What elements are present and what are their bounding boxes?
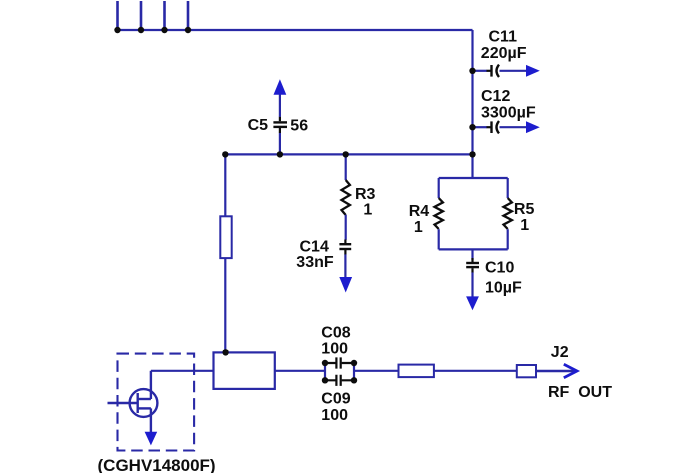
ground arrow C14 — [339, 277, 352, 293]
svg-text:33nF: 33nF — [296, 254, 334, 271]
svg-text:C08: C08 — [321, 324, 350, 341]
wire left branch upper — [224, 154, 226, 216]
capacitor C10 — [466, 258, 522, 297]
node junction dot C12 — [469, 124, 475, 130]
capacitor C11 — [473, 29, 527, 77]
node junction dot C11 — [469, 68, 475, 74]
svg-text:3300µF: 3300µF — [481, 105, 536, 122]
ground arrow C10 — [466, 296, 479, 310]
capacitor C14 — [296, 239, 351, 278]
wire bottom rail to C10 — [471, 249, 473, 260]
svg-text:(CGHV14800F): (CGHV14800F) — [98, 456, 216, 473]
power arrow C11 — [526, 65, 540, 77]
node dot C08 right — [351, 360, 357, 366]
node junction dot stub2 — [138, 27, 144, 33]
wire left branch lower — [224, 258, 226, 352]
svg-text:100: 100 — [321, 341, 348, 358]
wire C08/C09 to TL1 — [354, 370, 399, 372]
svg-text:10µF: 10µF — [485, 279, 522, 296]
svg-text:220µF: 220µF — [481, 45, 527, 62]
node junction dot stub3 — [161, 27, 167, 33]
svg-text:1: 1 — [363, 201, 372, 218]
wire supply stub 1 — [116, 1, 119, 30]
node junction dot bus/main — [469, 151, 475, 157]
wire supply stub 4 — [187, 1, 190, 30]
node junction dot C5 — [277, 151, 283, 157]
node junction dot left branch — [222, 151, 228, 157]
node junction dot stub1 — [114, 27, 120, 33]
svg-text:R5: R5 — [514, 201, 535, 218]
connector J2 arrow — [564, 364, 577, 378]
svg-text:C11: C11 — [489, 29, 518, 46]
resistor R4 — [409, 178, 443, 249]
wire supply stub 2 — [140, 1, 143, 30]
wire TL2 to J2 — [536, 370, 574, 372]
wire R4/R5 top rail — [439, 177, 508, 179]
resistor R3 — [342, 154, 376, 239]
svg-text:C09: C09 — [321, 391, 350, 408]
wire TL1 to TL2 — [434, 370, 517, 372]
resistor box (left branch) — [220, 216, 231, 258]
svg-text:C10: C10 — [485, 260, 514, 277]
node junction dot on block — [222, 349, 228, 355]
capacitor C12 — [473, 88, 536, 133]
block output match rectangle — [214, 352, 275, 389]
node dot C08 left — [322, 360, 328, 366]
wire block to C08/C09 — [275, 370, 325, 372]
svg-text:C12: C12 — [481, 88, 510, 105]
svg-text:RF OUT: RF OUT — [548, 384, 612, 401]
power arrow C12 — [526, 121, 540, 133]
svg-text:C5: C5 — [248, 117, 269, 134]
svg-text:1: 1 — [414, 219, 423, 236]
wire top bus — [118, 29, 473, 31]
capacitor C5 — [248, 95, 309, 155]
wire mid bus — [225, 153, 472, 155]
node junction dot stub4 — [185, 27, 191, 33]
svg-text:1: 1 — [520, 217, 529, 234]
svg-text:R3: R3 — [355, 186, 376, 203]
node junction dot R3 — [343, 151, 349, 157]
wire main vertical right — [471, 30, 473, 178]
wire drain to block — [151, 370, 214, 372]
wire supply stub 3 — [163, 1, 166, 30]
node dot C09 left — [322, 377, 328, 383]
transistor Q1 (MESFET) — [108, 371, 158, 433]
transistor Q1 dashed package box — [118, 354, 195, 451]
capacitor pair C08/C09 — [321, 324, 354, 424]
transmission line TL1 box — [399, 365, 434, 378]
svg-text:100: 100 — [321, 407, 348, 424]
wire R4/R5 bottom rail — [439, 248, 508, 250]
transmission line TL2 box — [517, 365, 536, 377]
node junction dot block top — [222, 349, 228, 355]
svg-text:56: 56 — [290, 118, 308, 135]
power arrow C5 — [274, 79, 287, 95]
svg-text:J2: J2 — [551, 344, 569, 361]
svg-text:R4: R4 — [409, 203, 430, 220]
node dot C09 right — [351, 377, 357, 383]
resistor R5 — [504, 178, 535, 249]
ground arrow Q1 source — [145, 432, 158, 446]
